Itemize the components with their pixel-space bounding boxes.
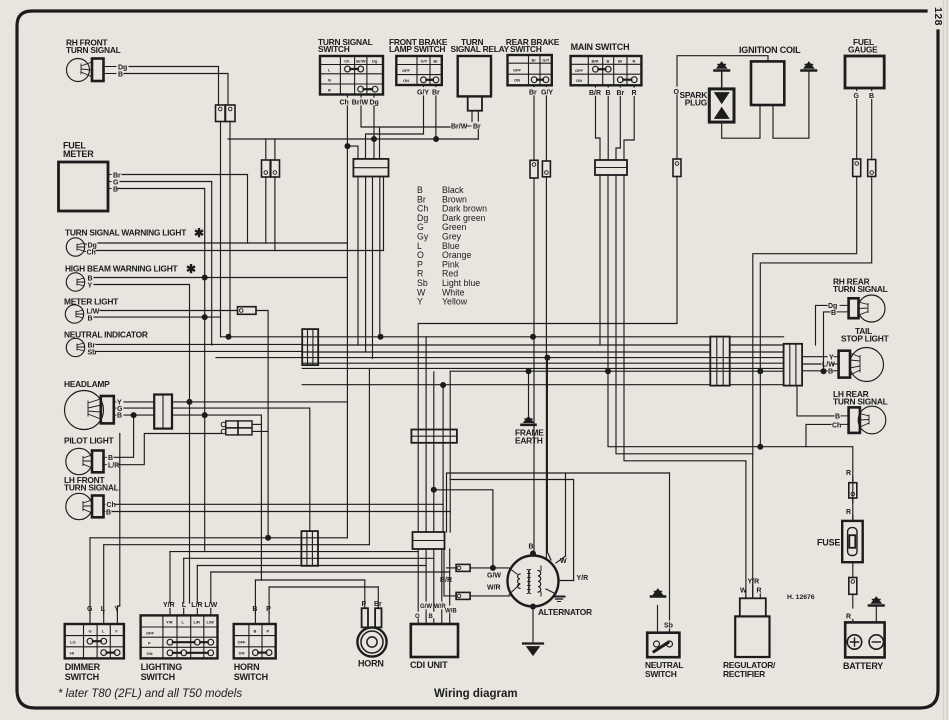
headlamp	[64, 379, 123, 430]
wire G from connector right	[172, 408, 310, 531]
svg-text:Ch: Ch	[832, 422, 841, 429]
wire battery minus to earth	[875, 607, 877, 623]
svg-text:Br/W: Br/W	[451, 124, 468, 131]
svg-text:SIGNAL RELAY: SIGNAL RELAY	[451, 44, 510, 54]
bullet connector on O wire	[673, 159, 681, 177]
svg-text:Wiring diagram: Wiring diagram	[434, 688, 518, 700]
svg-text:L/W: L/W	[822, 362, 835, 369]
svg-text:B: B	[108, 455, 113, 462]
right bus connector block left	[710, 337, 729, 386]
main switch 4-wire connector	[595, 160, 627, 175]
wire Ch from turn signal switch down	[346, 95, 348, 538]
horn switch	[234, 606, 276, 682]
svg-text:G/Y: G/Y	[541, 90, 553, 97]
bus wire y368.4	[302, 367, 783, 369]
svg-text:B: B	[429, 614, 434, 620]
ground symbol above spark plug	[715, 62, 730, 71]
svg-text:Br: Br	[473, 124, 481, 131]
wire horn P feed	[269, 586, 378, 588]
wire Ch to LH rear turn signal joins fuse line	[806, 424, 831, 446]
bullet connector pair (warning light feed)	[262, 160, 280, 177]
wire B continues to fuse line	[760, 177, 871, 447]
svg-text:Y: Y	[88, 283, 93, 290]
wire L/W to tail light	[802, 363, 821, 365]
svg-text:ON: ON	[514, 78, 520, 83]
central 4-wire connector below turn signal switch	[353, 159, 388, 177]
neutral indicator	[64, 330, 148, 357]
svg-text:OFF: OFF	[146, 631, 155, 636]
wire from lower bullet right	[252, 430, 268, 432]
turn signal warning light	[65, 226, 204, 257]
svg-text:SWITCH: SWITCH	[318, 44, 350, 54]
wire Y to tail light	[802, 356, 827, 358]
main switch	[571, 42, 642, 97]
wires below second bullet pair	[266, 177, 275, 251]
wire B/R main switch	[596, 85, 601, 160]
wire B below connector to fuse line	[608, 175, 853, 521]
riser lighting L/R	[196, 566, 198, 604]
wire Dg from warning light to Ch riser	[98, 242, 347, 244]
front brake lamp switch	[389, 37, 448, 97]
wire Dg from turn signal switch down into connector	[373, 95, 375, 160]
bullet connector G/W to alternator	[456, 564, 470, 571]
svg-text:Y: Y	[829, 354, 834, 361]
svg-text:TURN SIGNAL: TURN SIGNAL	[66, 45, 121, 55]
wire: right connector down to bus junction	[229, 122, 231, 337]
svg-text:P: P	[362, 601, 367, 608]
wire B to RH rear turn signal	[824, 312, 831, 371]
ground symbol right of ignition coil	[802, 62, 817, 71]
svg-text:MAIN SWITCH: MAIN SWITCH	[571, 42, 630, 52]
fuel gauge	[845, 37, 884, 100]
fuel meter	[59, 141, 122, 212]
svg-text:B: B	[835, 414, 840, 421]
CDI riser G/W	[425, 337, 427, 532]
wire Y/R branch line	[450, 480, 573, 581]
wire G/Y from rear brake switch down	[545, 85, 547, 558]
wire Y from high beam light to headlamp Y junction	[94, 285, 190, 604]
svg-text:Y: Y	[115, 628, 118, 633]
svg-text:ON: ON	[147, 651, 153, 656]
riser horn switch B	[254, 580, 256, 613]
wire W/R bullet left stub	[444, 549, 456, 596]
wire alternator Y/R stub	[558, 580, 574, 582]
bus wire B (y371.2)	[450, 370, 783, 372]
svg-text:SWITCH: SWITCH	[645, 669, 677, 679]
riser lighting L/W	[210, 572, 212, 603]
svg-text:R: R	[328, 88, 331, 93]
svg-text:B: B	[529, 544, 534, 551]
riser n2 up to bus	[368, 368, 370, 544]
wire dimmer L feed	[104, 544, 370, 546]
wire L/R from pilot light to lower bullet	[119, 434, 221, 465]
svg-text:B/R: B/R	[440, 577, 452, 584]
svg-text:LIGHTING: LIGHTING	[141, 662, 183, 672]
wire B from meter light to junction	[94, 316, 220, 318]
svg-text:B: B	[117, 412, 122, 419]
svg-text:B: B	[118, 72, 123, 79]
ignition coil	[739, 45, 801, 105]
pilot light	[64, 436, 119, 475]
svg-text:TURN SIGNAL: TURN SIGNAL	[833, 284, 888, 294]
svg-text:B: B	[254, 628, 257, 633]
svg-text:G: G	[113, 179, 119, 186]
svg-text:LAMP SWITCH: LAMP SWITCH	[389, 44, 445, 54]
riser lighting Y/R	[169, 552, 171, 603]
svg-text:Br: Br	[532, 58, 537, 63]
wire lighting L feed	[184, 557, 434, 559]
svg-text:PILOT LIGHT: PILOT LIGHT	[64, 436, 114, 446]
riser horn P terminal	[364, 580, 366, 608]
wire B from fuel meter (ground riser)	[118, 189, 205, 552]
bullet connector pair (turn signal feed)	[216, 105, 236, 122]
svg-text:G/W: G/W	[420, 604, 432, 610]
CDI unit connector block	[413, 532, 445, 549]
wire Br below connector to regulator YR line	[616, 175, 753, 598]
svg-text:PLUG: PLUG	[685, 98, 707, 108]
riser horn Br terminal	[377, 587, 379, 608]
svg-text:Y/R: Y/R	[577, 575, 589, 582]
svg-text:SWITCH: SWITCH	[141, 672, 175, 682]
wire W/R line to neutral switch Sb	[447, 473, 670, 532]
wire Ch from LH front turn signal to riser	[115, 504, 443, 532]
horn	[357, 601, 386, 669]
svg-text:ON: ON	[576, 78, 582, 83]
turn signal relay	[451, 37, 510, 111]
svg-text:L/W: L/W	[87, 308, 100, 315]
svg-text:STOP LIGHT: STOP LIGHT	[841, 334, 890, 344]
svg-text:Br: Br	[529, 90, 537, 97]
dimmer switch	[65, 606, 124, 682]
regulator rectifier	[723, 579, 776, 680]
wire lighting L/W feed	[211, 571, 450, 573]
wire B from high beam light to junction	[94, 277, 347, 279]
riser B up to bus	[449, 371, 451, 511]
svg-text:B: B	[831, 310, 836, 317]
svg-text:Y/R: Y/R	[748, 579, 760, 586]
LH rear turn signal	[832, 389, 888, 434]
svg-text:✱: ✱	[186, 262, 196, 276]
svg-text:Yellow: Yellow	[442, 297, 468, 307]
svg-text:P: P	[148, 641, 151, 646]
svg-text:HORN: HORN	[358, 659, 384, 669]
svg-text:TURN SIGNAL: TURN SIGNAL	[833, 397, 888, 407]
svg-text:G/W: G/W	[487, 573, 501, 580]
svg-text:L/W: L/W	[207, 619, 215, 624]
wire Br/W from turn signal switch to relay	[361, 95, 450, 128]
svg-text:✱: ✱	[194, 226, 204, 240]
svg-text:ALTERNATOR: ALTERNATOR	[538, 607, 592, 617]
wire spark plug bottom to coil	[722, 105, 760, 138]
wire lighting Y/R feed	[170, 551, 418, 553]
svg-text:Br/W: Br/W	[352, 100, 369, 107]
svg-text:Br: Br	[113, 172, 121, 179]
alternator bottom earth wire	[532, 607, 534, 644]
svg-text:R: R	[846, 509, 851, 516]
wire lighting L/R feed	[197, 565, 426, 567]
svg-text:ON: ON	[403, 78, 409, 83]
bus wires between connectors	[730, 337, 784, 385]
svg-text:SWITCH: SWITCH	[234, 672, 268, 682]
svg-text:B: B	[88, 275, 93, 282]
svg-text:HIGH BEAM WARNING LIGHT: HIGH BEAM WARNING LIGHT	[65, 264, 179, 274]
svg-text:Ch: Ch	[87, 250, 96, 257]
svg-text:R: R	[846, 614, 851, 621]
bus wire Br (y345)	[302, 344, 710, 346]
CDI riser O	[417, 324, 419, 533]
wire horizontal brake/relay line	[228, 138, 478, 140]
alternator internal ground	[546, 589, 556, 594]
riser lighting L	[183, 558, 185, 603]
bus wire y384.7	[302, 384, 710, 386]
wire Y from connector right	[172, 401, 347, 403]
svg-text:R: R	[633, 59, 636, 64]
svg-text:HORN: HORN	[234, 662, 260, 672]
tail stop light	[822, 326, 890, 382]
wire R main switch	[624, 85, 634, 160]
bus wire L/W (y363.2)	[302, 362, 783, 364]
svg-text:ON: ON	[239, 651, 245, 656]
svg-text:BATTERY: BATTERY	[843, 661, 883, 671]
right bus connector block right	[784, 344, 803, 386]
svg-text:CDI UNIT: CDI UNIT	[410, 660, 448, 670]
branch from CDI B riser to alternator G/W	[434, 490, 493, 568]
wire B to tail light	[802, 370, 827, 372]
wire Ch from warning light to pin4 riser	[96, 177, 384, 251]
svg-text:L/R: L/R	[194, 619, 201, 624]
svg-text:Br: Br	[618, 59, 623, 64]
svg-text:R: R	[846, 470, 851, 477]
svg-text:B: B	[828, 369, 833, 376]
riser to bus from n1	[346, 537, 348, 539]
turn signal switch	[318, 37, 383, 107]
CDI riser B with branch	[433, 372, 435, 532]
wire B from connector right to bullet riser	[172, 415, 261, 580]
svg-text:Dg: Dg	[88, 242, 97, 249]
svg-text:FUSE: FUSE	[817, 538, 840, 548]
svg-text:Y/R: Y/R	[166, 619, 173, 624]
bullet connector on rear brake G/Y	[542, 161, 550, 177]
wire main B/Br risers cross bus	[546, 358, 548, 552]
svg-text:Br: Br	[374, 601, 382, 608]
svg-text:Dg: Dg	[372, 59, 378, 64]
wire Sb from neutral indicator to bus	[96, 350, 302, 352]
wire W/R bullet to alternator	[470, 595, 510, 597]
svg-text:H. 12676: H. 12676	[787, 594, 815, 601]
svg-text:TURN SIGNAL WARNING LIGHT: TURN SIGNAL WARNING LIGHT	[65, 228, 187, 238]
svg-text:OFF: OFF	[402, 68, 411, 73]
frame earth symbol	[522, 417, 536, 425]
svg-text:128: 128	[932, 7, 944, 26]
wire G/Y from front brake switch into connector pin2	[366, 85, 424, 159]
wire G/W bullet left stub	[447, 567, 457, 569]
wire B to LH rear turn signal	[797, 386, 834, 416]
svg-text:B: B	[106, 509, 111, 516]
svg-text:OFF: OFF	[575, 68, 584, 73]
svg-text:Sb: Sb	[88, 350, 97, 357]
svg-text:SWITCH: SWITCH	[65, 672, 99, 682]
wire O continues down and left (to CDI)	[418, 177, 677, 324]
svg-text:HEADLAMP: HEADLAMP	[64, 379, 110, 389]
svg-text:B: B	[88, 316, 93, 323]
svg-text:EARTH: EARTH	[515, 436, 543, 446]
svg-text:GAUGE: GAUGE	[848, 45, 878, 55]
wire dimmer G feed	[90, 537, 347, 539]
svg-text:Dg: Dg	[118, 64, 127, 71]
wire G continues to regulator YR line	[753, 177, 857, 454]
svg-text:O: O	[415, 614, 420, 620]
svg-text:OFF: OFF	[513, 68, 522, 73]
wire pin1 down joins bus	[357, 177, 359, 346]
svg-text:DIMMER: DIMMER	[65, 662, 101, 672]
svg-text:METER: METER	[63, 149, 94, 159]
bullet connector on B	[868, 160, 876, 177]
CDI wire labels	[415, 604, 457, 620]
inline bullet connector on L/W	[238, 307, 257, 315]
riser dimmer L	[103, 545, 105, 613]
wire coil right lead to ground	[773, 72, 809, 138]
wire R below connector to regulator W line	[624, 175, 746, 598]
high beam warning light	[65, 262, 196, 291]
svg-text:B: B	[113, 186, 118, 193]
wire pin3 down to bus	[372, 177, 374, 359]
svg-text:Br: Br	[434, 59, 439, 64]
svg-text:IGNITION COIL: IGNITION COIL	[739, 45, 801, 55]
wire B from LH front turn signal to riser	[112, 512, 450, 533]
wire B main switch	[607, 85, 609, 160]
wire Dg from RH front turn signal to connector	[129, 67, 219, 106]
wire pin4 down to bus junction	[379, 177, 381, 337]
RH front turn signal bulb	[66, 38, 127, 82]
wire Sb down to neutral switch	[669, 473, 671, 633]
fuse assembly	[817, 470, 863, 622]
wire alternator W riser	[565, 473, 567, 556]
LH front turn signal	[64, 475, 119, 520]
wire pin2 down to bus	[365, 177, 367, 352]
alternator	[487, 544, 592, 618]
bullet connector on rear brake Br	[530, 160, 538, 178]
bullet connector W/R to alternator	[456, 592, 470, 599]
bullet connector on G	[853, 159, 861, 177]
bus wire y357.6	[216, 357, 784, 359]
alternator earth symbol	[523, 644, 543, 656]
svg-text:G/Y: G/Y	[543, 58, 550, 63]
wire G from fuel gauge	[856, 88, 858, 159]
riser dimmer G	[89, 538, 91, 613]
CDI harness connector block	[411, 430, 457, 443]
svg-text:Sb: Sb	[664, 623, 673, 630]
svg-text:LO: LO	[70, 640, 76, 645]
wire G/W bullet to alternator	[470, 567, 509, 569]
riser Ch up to bus junction	[442, 385, 444, 504]
double bullet connector pair (headlamp feed)	[221, 421, 252, 435]
svg-text:N: N	[328, 78, 331, 83]
svg-text:B/R: B/R	[592, 59, 599, 64]
wire O down to bullet	[676, 95, 678, 159]
svg-text:Ch: Ch	[344, 59, 350, 64]
svg-text:Y: Y	[417, 297, 423, 307]
svg-text:Br: Br	[88, 342, 96, 349]
wire ground to spark plug	[721, 72, 723, 88]
svg-text:B: B	[607, 59, 610, 64]
wire Br from fuel meter	[122, 175, 248, 244]
wire Dg to RH rear turn signal	[816, 305, 828, 345]
wire alternator W diagonal	[547, 552, 565, 563]
wire O from ignition coil top to left	[677, 56, 768, 86]
svg-text:W/B: W/B	[445, 609, 457, 615]
headlamp connector	[154, 395, 172, 429]
svg-text:P: P	[267, 628, 270, 633]
svg-text:Br/W: Br/W	[356, 59, 366, 64]
wire Br from rear brake switch down to alternator B	[533, 85, 535, 553]
riser horn switch P	[268, 587, 270, 613]
wire Br main switch	[616, 85, 620, 160]
battery earth	[869, 597, 884, 606]
svg-text:TURN SIGNAL: TURN SIGNAL	[64, 483, 119, 493]
wire B from pilot light up to headlamp B	[114, 415, 134, 457]
neutral switch	[645, 589, 683, 679]
wire horn B feed	[255, 579, 364, 581]
battery	[843, 622, 885, 671]
svg-text:W/R: W/R	[487, 585, 501, 592]
svg-text:OFF: OFF	[238, 640, 247, 645]
bus wire Dg (y337)	[221, 336, 711, 338]
wire B from fuel gauge	[871, 88, 873, 160]
meter light	[64, 297, 119, 324]
wire Y from headlamp to connector	[124, 401, 154, 403]
central 3-wire connector	[302, 329, 318, 365]
frame earth drop	[528, 371, 530, 415]
svg-text:Y/R: Y/R	[163, 602, 175, 609]
wire Br/W relay lead	[471, 111, 473, 122]
wire: left connector down to bus	[220, 122, 222, 337]
rear brake switch	[506, 37, 560, 97]
wire G from fuel meter	[120, 182, 212, 346]
spark plug	[680, 89, 734, 122]
wire G from headlamp to connector	[124, 407, 154, 409]
wire B/R below connector to bus	[599, 175, 601, 345]
RH rear turn signal	[828, 277, 888, 323]
wire B from RH front turn signal to connector	[124, 74, 228, 106]
wire riser dimmer Y joins L/R line	[117, 434, 119, 614]
lower connector block	[301, 531, 318, 566]
wire pin4 up to Br/W line	[379, 127, 381, 159]
svg-text:RECTIFIER: RECTIFIER	[723, 669, 765, 679]
wire from upper bullet right	[252, 423, 261, 425]
svg-text:L/R: L/R	[108, 463, 119, 470]
wire B from headlamp to connector	[124, 414, 154, 416]
svg-text:Ch: Ch	[107, 502, 116, 509]
CDI wires from connector to unit	[418, 549, 450, 624]
svg-text:SWITCH: SWITCH	[510, 44, 542, 54]
wire Br from neutral indicator to bus	[96, 343, 302, 345]
svg-text:HI: HI	[70, 651, 74, 656]
CDI unit box	[410, 624, 458, 670]
wire Br from front brake switch down	[435, 85, 437, 139]
svg-text:* later T80 (2FL) and all T50: * later T80 (2FL) and all T50 models	[58, 688, 242, 700]
wires above second bullet pair	[266, 139, 275, 160]
legend colour codes	[417, 185, 487, 307]
lighting switch	[141, 602, 218, 682]
wire L/W from meter light through inline connector	[100, 311, 268, 538]
svg-text:G/Y: G/Y	[421, 59, 428, 64]
wire Ch branch into 4-pin connector	[348, 146, 359, 159]
bus wire Sb (y352)	[302, 351, 710, 353]
wire Br relay lead	[477, 111, 479, 139]
svg-text:G: G	[89, 628, 92, 633]
